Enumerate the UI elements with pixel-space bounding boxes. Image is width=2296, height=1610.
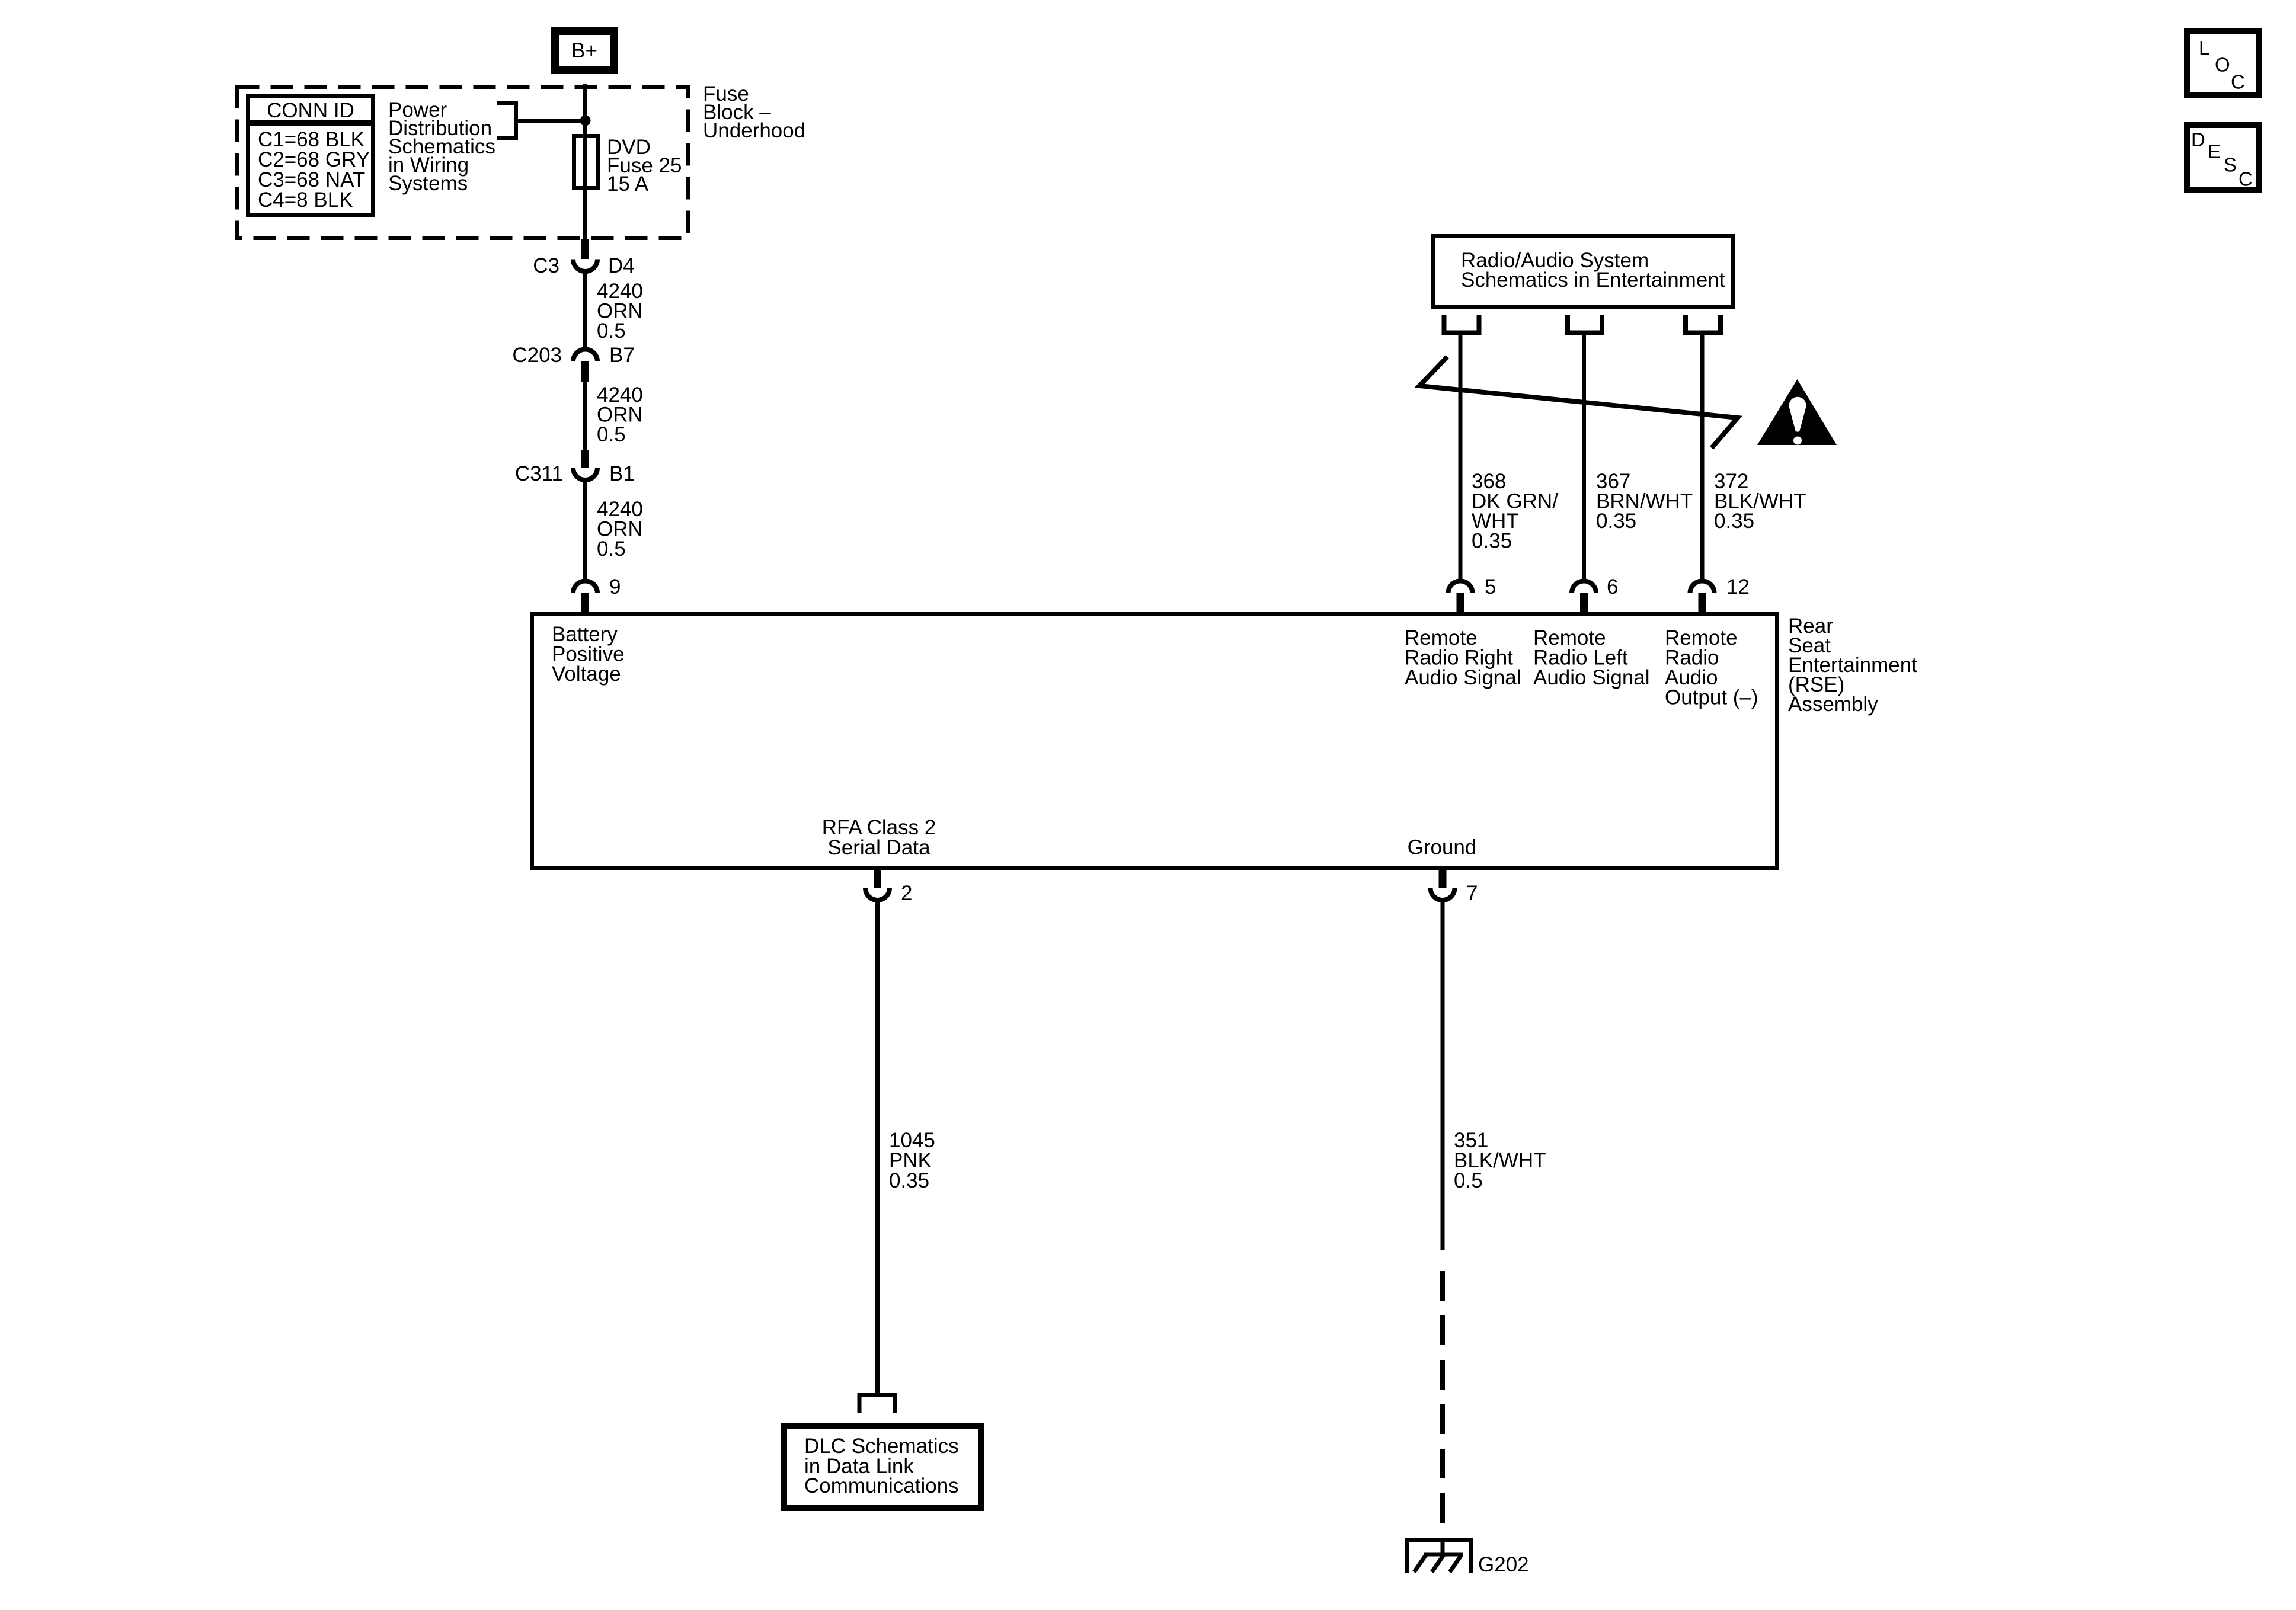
connector C203/B7 [512, 344, 634, 382]
radio connector bracket 1 [1444, 315, 1479, 333]
B+ power symbol [555, 31, 614, 70]
svg-text:C203: C203 [512, 344, 562, 367]
LOC box [2187, 31, 2259, 95]
wire C203 to C311 [583, 382, 587, 450]
bracket to power distribution [497, 103, 516, 139]
svg-text:B+: B+ [571, 39, 597, 62]
svg-text:B1: B1 [609, 462, 635, 485]
wire C3 to C203 [583, 271, 587, 350]
svg-text:C4=8 BLK: C4=8 BLK [258, 188, 353, 212]
connector C311/B1 [515, 450, 635, 485]
svg-text:RFA Class 2Serial Data: RFA Class 2Serial Data [822, 816, 936, 859]
DESC box [2187, 125, 2259, 190]
svg-text:5: 5 [1485, 575, 1496, 598]
svg-text:B7: B7 [609, 344, 635, 367]
wire bracket to junction [517, 119, 586, 123]
svg-text:BatteryPositiveVoltage: BatteryPositiveVoltage [552, 623, 625, 686]
svg-text:9: 9 [609, 575, 621, 598]
Radio/Audio System Schematics in Entertainment box [1433, 236, 1733, 307]
svg-text:C: C [2231, 71, 2245, 93]
wire pin 2 to DLC [875, 900, 880, 1393]
wire radio audio output [1700, 335, 1705, 581]
wire pin 7 down [1441, 900, 1445, 1250]
wire C311 to pin 9 [583, 480, 587, 581]
svg-text:CONN ID: CONN ID [267, 99, 354, 122]
warning triangle [1757, 379, 1837, 445]
fuse block dashed outline [237, 88, 688, 238]
pin 7 connector [1431, 869, 1478, 905]
pin 9 connector [573, 575, 621, 613]
wire radio left audio [1582, 335, 1586, 581]
svg-text:L: L [2199, 37, 2209, 59]
CONN ID table [246, 96, 375, 215]
pin 6 connector [1572, 575, 1618, 613]
svg-text:E: E [2208, 140, 2221, 162]
svg-text:12: 12 [1726, 575, 1750, 598]
svg-text:C: C [2239, 168, 2253, 190]
ground G202 [1405, 1538, 1529, 1576]
svg-text:2: 2 [901, 882, 912, 905]
pin 2 connector [865, 869, 912, 905]
svg-text:G202: G202 [1478, 1553, 1529, 1576]
pin 12 connector [1690, 575, 1750, 613]
dashed ground wire [1440, 1271, 1445, 1523]
svg-text:C3: C3 [533, 254, 559, 277]
pin 5 connector [1448, 575, 1496, 613]
junction node [580, 116, 591, 126]
svg-text:7: 7 [1466, 882, 1478, 905]
wire radio right audio [1459, 335, 1463, 581]
svg-text:Ground: Ground [1408, 836, 1477, 859]
DLC connector bracket [859, 1395, 895, 1413]
svg-text:O: O [2215, 54, 2230, 76]
fuse DVD Fuse 25 15A [574, 136, 598, 188]
wire B+ down through fuse [583, 84, 587, 239]
options slash line across wires [1419, 357, 1738, 448]
connector C3/D4 [533, 239, 635, 277]
svg-text:1045PNK0.35: 1045PNK0.35 [889, 1129, 935, 1192]
svg-text:D: D [2191, 129, 2205, 151]
svg-text:C311: C311 [515, 462, 563, 485]
svg-text:6: 6 [1607, 575, 1618, 598]
svg-text:S: S [2224, 154, 2237, 176]
radio connector bracket 2 [1568, 315, 1602, 333]
radio connector bracket 3 [1686, 315, 1721, 333]
svg-text:D4: D4 [608, 254, 635, 277]
RSE assembly box [532, 614, 1777, 868]
DLC Schematics box [784, 1426, 981, 1508]
